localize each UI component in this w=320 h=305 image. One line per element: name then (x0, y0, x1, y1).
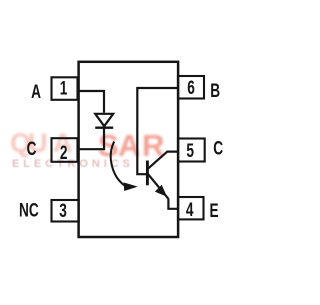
svg-text:A: A (31, 81, 41, 103)
svg-text:3: 3 (59, 200, 67, 222)
svg-text:1: 1 (60, 77, 68, 99)
svg-text:NC: NC (19, 199, 39, 221)
svg-text:4: 4 (186, 199, 194, 221)
svg-text:6: 6 (187, 77, 195, 99)
svg-text:C: C (27, 138, 37, 160)
svg-text:E: E (210, 200, 219, 222)
svg-text:C: C (213, 137, 223, 159)
svg-text:2: 2 (60, 142, 68, 164)
svg-text:5: 5 (186, 140, 194, 162)
svg-text:B: B (210, 80, 220, 102)
